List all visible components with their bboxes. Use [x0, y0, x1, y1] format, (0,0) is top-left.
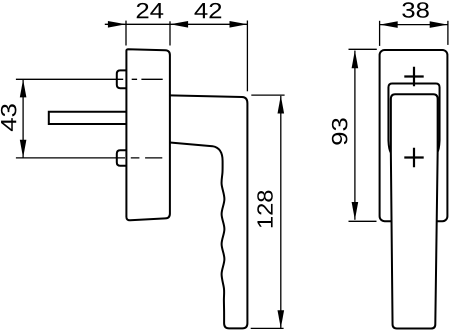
- arrow 38 right (pointing right): [430, 21, 448, 28]
- neck left ear: [388, 141, 390, 153]
- arrow 42 right (pointing right): [230, 21, 248, 28]
- arrow 43 bottom (pointing down): [20, 140, 27, 158]
- dimension line 128: [280, 96, 282, 328]
- arrow 38 left (pointing left): [380, 21, 398, 28]
- spindle (square shaft): [49, 112, 127, 124]
- dimension line 93: [354, 51, 356, 220]
- handle grip (front view): [391, 94, 438, 328]
- handle neck outer contour (front view): [388, 84, 439, 141]
- label 128: [257, 191, 273, 228]
- handle outline (neck + grip, side view): [170, 95, 248, 328]
- dimension 24: extension line at x=126: [125, 21, 127, 46]
- label 43: [1, 104, 17, 131]
- arrow 43 top (pointing up): [20, 79, 27, 97]
- arrow 24 right / 42 left (pointing left): [170, 21, 188, 28]
- centerline of screw S1 (dash-dot): [16, 78, 163, 80]
- dimension 93: top extension line: [349, 48, 377, 50]
- dimension line 42: [170, 23, 247, 25]
- dimension line 24 with outside tail: [105, 23, 170, 25]
- screw position cross top (+): [404, 67, 423, 86]
- label 24: [137, 3, 164, 18]
- neck right ear: [437, 141, 439, 153]
- dimension 38: right extension line: [447, 21, 449, 45]
- dimension 93: bottom extension line: [349, 220, 377, 222]
- label 38: [402, 2, 429, 18]
- arrow 128 bottom (pointing down): [278, 310, 285, 328]
- dimension line 38: [380, 24, 448, 26]
- arrow 128 top (pointing up): [278, 96, 285, 114]
- label 93: [332, 118, 348, 144]
- arrow 93 top (pointing up): [352, 50, 359, 68]
- dimension 128: bottom extension line: [251, 327, 284, 329]
- dimension 42: extension line at x=247.4: [246, 21, 248, 92]
- rosette (side view): [126, 49, 169, 220]
- screw S1 (top, side view): [117, 70, 127, 88]
- rosette (front view): [380, 50, 448, 221]
- dimension 24/42: shared extension line at x=170: [169, 21, 171, 45]
- label 42: [194, 3, 221, 18]
- screw S2 (bottom, side view): [117, 150, 127, 166]
- dimension 128: top extension line: [251, 94, 284, 96]
- dimension 38: left extension line: [379, 21, 381, 46]
- centerline of screw S2 (dash-dot): [16, 157, 162, 159]
- arrow 93 bottom (pointing down): [352, 202, 359, 220]
- dimension 43: dimension line: [22, 79, 24, 158]
- screw position cross bottom (+): [404, 148, 423, 167]
- arrow 24 left (outside, pointing right): [108, 21, 126, 28]
